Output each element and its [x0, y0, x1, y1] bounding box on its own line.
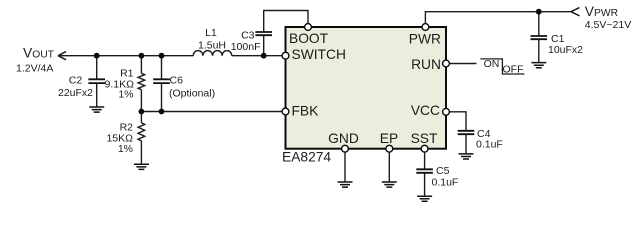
svg-text:R2: R2 [120, 121, 134, 133]
svg-text:4.5V~21V: 4.5V~21V [585, 19, 631, 31]
svg-text:22uFx2: 22uFx2 [58, 87, 93, 99]
svg-text:FBK: FBK [292, 104, 320, 119]
svg-text:RUN: RUN [411, 57, 441, 72]
svg-text:1.2V/4A: 1.2V/4A [16, 63, 53, 75]
svg-text:L1: L1 [205, 27, 217, 39]
svg-text:(Optional): (Optional) [169, 88, 215, 100]
svg-text:0.1uF: 0.1uF [476, 139, 503, 151]
svg-text:OFF: OFF [503, 63, 524, 75]
svg-text:VCC: VCC [411, 103, 440, 118]
svg-text:0.1uF: 0.1uF [432, 177, 459, 189]
svg-text:C2: C2 [69, 75, 83, 87]
svg-text:PWR: PWR [409, 32, 441, 47]
svg-text:1.5uH: 1.5uH [198, 40, 226, 52]
svg-text:SST: SST [411, 131, 438, 146]
svg-text:1%: 1% [118, 143, 133, 155]
svg-text:EP: EP [380, 131, 398, 146]
svg-text:C5: C5 [436, 165, 450, 177]
svg-text:SWITCH: SWITCH [292, 47, 346, 62]
svg-text:GND: GND [328, 131, 359, 146]
svg-text:C3: C3 [241, 30, 255, 42]
svg-text:EA8274: EA8274 [282, 150, 331, 165]
svg-text:BOOT: BOOT [289, 31, 329, 46]
svg-text:1%: 1% [118, 89, 133, 101]
svg-text:10uFx2: 10uFx2 [548, 44, 583, 56]
svg-text:C6: C6 [170, 75, 184, 87]
svg-text:100nF: 100nF [231, 41, 261, 53]
svg-text:ON: ON [484, 58, 500, 70]
